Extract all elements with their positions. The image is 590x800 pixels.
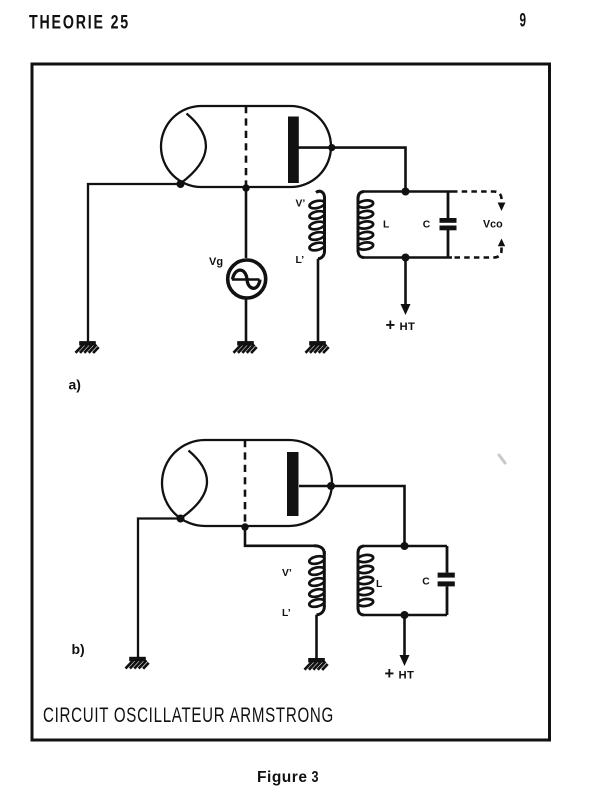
svg-text:L’: L’ (282, 608, 291, 619)
capacitor C (b): top plate (438, 573, 455, 578)
wire anode to tank (b) (299, 486, 405, 546)
svg-text:3: 3 (312, 769, 319, 786)
node grid junction (b) (241, 523, 248, 530)
svg-text:L’: L’ (296, 255, 305, 266)
tank coil L (b): spine (357, 552, 360, 610)
capacitor C (b): bottom lead (446, 587, 449, 616)
wire Vg to ground (a) (245, 300, 248, 342)
tank coil L (a): bottom corner (358, 250, 364, 258)
ground (b, L') (305, 658, 328, 670)
tank bottom rail (a) (364, 256, 452, 259)
tube envelope (b) (162, 440, 332, 526)
capacitor C (b): bottom plate (438, 581, 455, 586)
coupling coil L' (a): spine (323, 197, 326, 252)
+HT arrow (a) (404, 258, 407, 306)
tank top rail (b) (364, 545, 447, 548)
svg-text:THEORIE 25: THEORIE 25 (29, 12, 130, 34)
coupling coil L' (a): bottom hook (318, 250, 325, 259)
svg-text:b): b) (72, 641, 85, 657)
svg-text:+: + (386, 317, 396, 335)
svg-text:L: L (376, 579, 382, 590)
tank coil L (a): loops (357, 199, 373, 250)
node anode crossing (b) (327, 482, 335, 490)
tank coil L (a): top corner (358, 192, 364, 199)
coupling coil L' (b): spine (323, 551, 326, 607)
Vco bottom arrow (up) (498, 239, 505, 247)
capacitor C (a): top plate (440, 218, 457, 223)
stray scan mark (499, 455, 505, 463)
node cathode junction (a) (177, 180, 185, 188)
wire grid to Vg (a) (245, 188, 248, 258)
svg-text:V’: V’ (282, 568, 292, 579)
svg-text:L: L (383, 219, 389, 230)
svg-text:Vco: Vco (483, 218, 503, 230)
capacitor C (a): top lead (447, 192, 450, 219)
tank bottom rail dashed from Vco (a) (452, 248, 502, 258)
tank coil L (b): top corner (358, 546, 364, 553)
wire cathode to ground (b) (138, 519, 181, 658)
svg-text:HT: HT (399, 670, 415, 682)
grid dashed line (a) (245, 106, 248, 188)
+HT arrow (b) (403, 615, 406, 656)
coupling coil L' (b): top corner (314, 546, 324, 554)
tank bottom rail (b) (364, 614, 447, 617)
figure border frame (32, 64, 550, 740)
cathode arc (a) (181, 114, 206, 184)
ground (b, cathode) (126, 657, 149, 669)
anode plate bar (a) (288, 117, 299, 184)
coupling coil L' (b): bottom hook (317, 606, 325, 615)
wire L' to ground (b) (315, 615, 318, 659)
tank top rail (a) (364, 190, 452, 193)
node tank top junction (b) (401, 542, 409, 550)
svg-text:C: C (423, 219, 431, 230)
node tank top junction (a) (402, 188, 410, 196)
wire grid to L' (b) (245, 527, 315, 546)
svg-text:+: + (385, 665, 395, 683)
node tank bottom junction (b) (401, 611, 409, 619)
cathode arc (b) (181, 451, 207, 519)
grid dashed line (b) (244, 440, 247, 527)
source Vg circle (228, 260, 266, 298)
capacitor C (b): top lead (446, 546, 449, 573)
ground (a, cathode) (76, 341, 99, 353)
Vco top arrow (down) (498, 203, 506, 212)
node tank bottom junction (a) (402, 254, 410, 262)
svg-text:CIRCUIT OSCILLATEUR ARMSTRONG: CIRCUIT OSCILLATEUR ARMSTRONG (43, 704, 334, 727)
ground (a, Vg) (234, 341, 257, 353)
tube envelope (a) (161, 106, 331, 187)
anode plate bar (b) (287, 452, 299, 516)
tank coil L (b): bottom corner (358, 608, 364, 616)
tank top rail dashed to Vco (a) (452, 192, 502, 203)
tank coil L (a): spine (357, 197, 360, 252)
svg-text:V’: V’ (296, 199, 306, 210)
wire anode to tank (a) (299, 148, 406, 192)
source Vg sine symbol (232, 278, 260, 281)
capacitor C (a): bottom plate (440, 226, 457, 231)
capacitor C (a): bottom lead (447, 230, 450, 258)
ground (a, L') (306, 341, 329, 353)
svg-text:HT: HT (400, 321, 416, 333)
wire cathode to ground (a) (88, 184, 181, 342)
node anode crossing (a) (328, 144, 335, 151)
svg-text:Vg: Vg (209, 256, 223, 268)
svg-text:a): a) (69, 377, 81, 393)
node grid junction (a) (242, 184, 249, 191)
svg-text:9: 9 (520, 10, 527, 32)
wire L' to ground (a) (317, 259, 320, 342)
coupling coil L' (a): top hook (316, 191, 325, 198)
svg-text:Figure: Figure (257, 769, 308, 786)
tank coil L (b): loops (357, 554, 373, 607)
coupling coil L' (a): loops (309, 199, 326, 251)
node cathode junction (b) (177, 515, 185, 523)
coupling coil L' (b): loops (309, 555, 326, 608)
svg-text:C: C (422, 577, 430, 588)
